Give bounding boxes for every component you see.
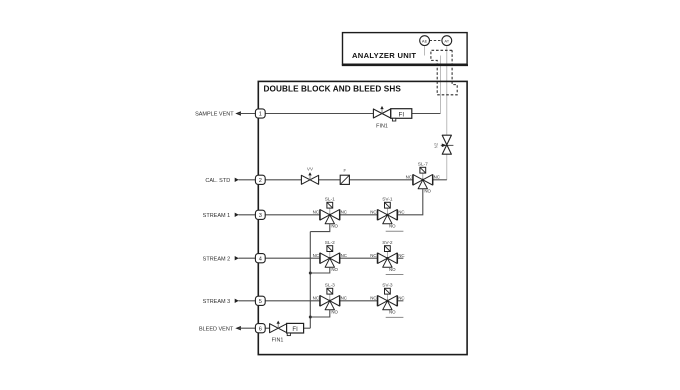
svg-text:NO: NO xyxy=(424,189,431,194)
svg-text:3: 3 xyxy=(259,213,262,219)
svg-text:NO: NO xyxy=(331,267,338,272)
svg-text:N2: N2 xyxy=(434,142,439,148)
svg-text:NO: NO xyxy=(331,224,338,229)
svg-text:2: 2 xyxy=(259,178,262,184)
svg-text:FIN1: FIN1 xyxy=(376,124,388,130)
svg-text:NC: NC xyxy=(370,253,376,258)
svg-text:SL-2: SL-2 xyxy=(325,240,335,246)
svg-text:SV-1: SV-1 xyxy=(382,197,393,203)
svg-text:NC: NC xyxy=(313,210,319,215)
svg-text:1: 1 xyxy=(259,112,262,118)
svg-text:NC: NC xyxy=(370,210,376,215)
svg-text:NC: NC xyxy=(434,175,440,180)
svg-text:DOUBLE BLOCK AND BLEED SHS: DOUBLE BLOCK AND BLEED SHS xyxy=(264,85,402,94)
svg-text:NC: NC xyxy=(398,296,404,301)
svg-text:NC: NC xyxy=(313,253,319,258)
svg-text:BLEED VENT: BLEED VENT xyxy=(199,326,234,332)
svg-text:NO: NO xyxy=(389,310,396,315)
svg-text:VV: VV xyxy=(307,167,314,172)
svg-text:NO: NO xyxy=(389,224,396,229)
svg-text:NC: NC xyxy=(406,175,412,180)
svg-text:FI: FI xyxy=(399,111,405,118)
svg-text:STREAM 3: STREAM 3 xyxy=(203,299,231,305)
svg-text:FIN1: FIN1 xyxy=(272,337,284,343)
svg-text:NC: NC xyxy=(370,296,376,301)
svg-text:5: 5 xyxy=(259,299,262,305)
svg-text:NC: NC xyxy=(341,210,347,215)
svg-text:STREAM 2: STREAM 2 xyxy=(203,256,231,262)
svg-text:F: F xyxy=(344,168,347,173)
svg-text:CAL. STD: CAL. STD xyxy=(205,178,230,184)
svg-text:NC: NC xyxy=(398,210,404,215)
svg-text:NO: NO xyxy=(331,310,338,315)
svg-text:SL-3: SL-3 xyxy=(325,283,335,289)
svg-text:SL-1: SL-1 xyxy=(325,197,335,203)
svg-text:STREAM 1: STREAM 1 xyxy=(203,213,231,219)
svg-text:NC: NC xyxy=(398,253,404,258)
svg-text:SAMPLE VENT: SAMPLE VENT xyxy=(195,112,234,118)
svg-text:ANALYZER UNIT: ANALYZER UNIT xyxy=(352,51,416,60)
svg-text:SV-3: SV-3 xyxy=(382,283,393,289)
svg-text:4: 4 xyxy=(259,256,262,262)
svg-text:AE: AE xyxy=(422,38,428,43)
svg-text:FI: FI xyxy=(292,327,298,333)
svg-text:NC: NC xyxy=(313,296,319,301)
svg-text:NC: NC xyxy=(341,296,347,301)
svg-text:6: 6 xyxy=(259,326,262,332)
svg-text:SL-7: SL-7 xyxy=(418,162,428,168)
svg-text:NC: NC xyxy=(341,253,347,258)
svg-text:SV-2: SV-2 xyxy=(382,240,393,246)
svg-text:NO: NO xyxy=(389,267,396,272)
svg-text:AT: AT xyxy=(444,38,449,43)
